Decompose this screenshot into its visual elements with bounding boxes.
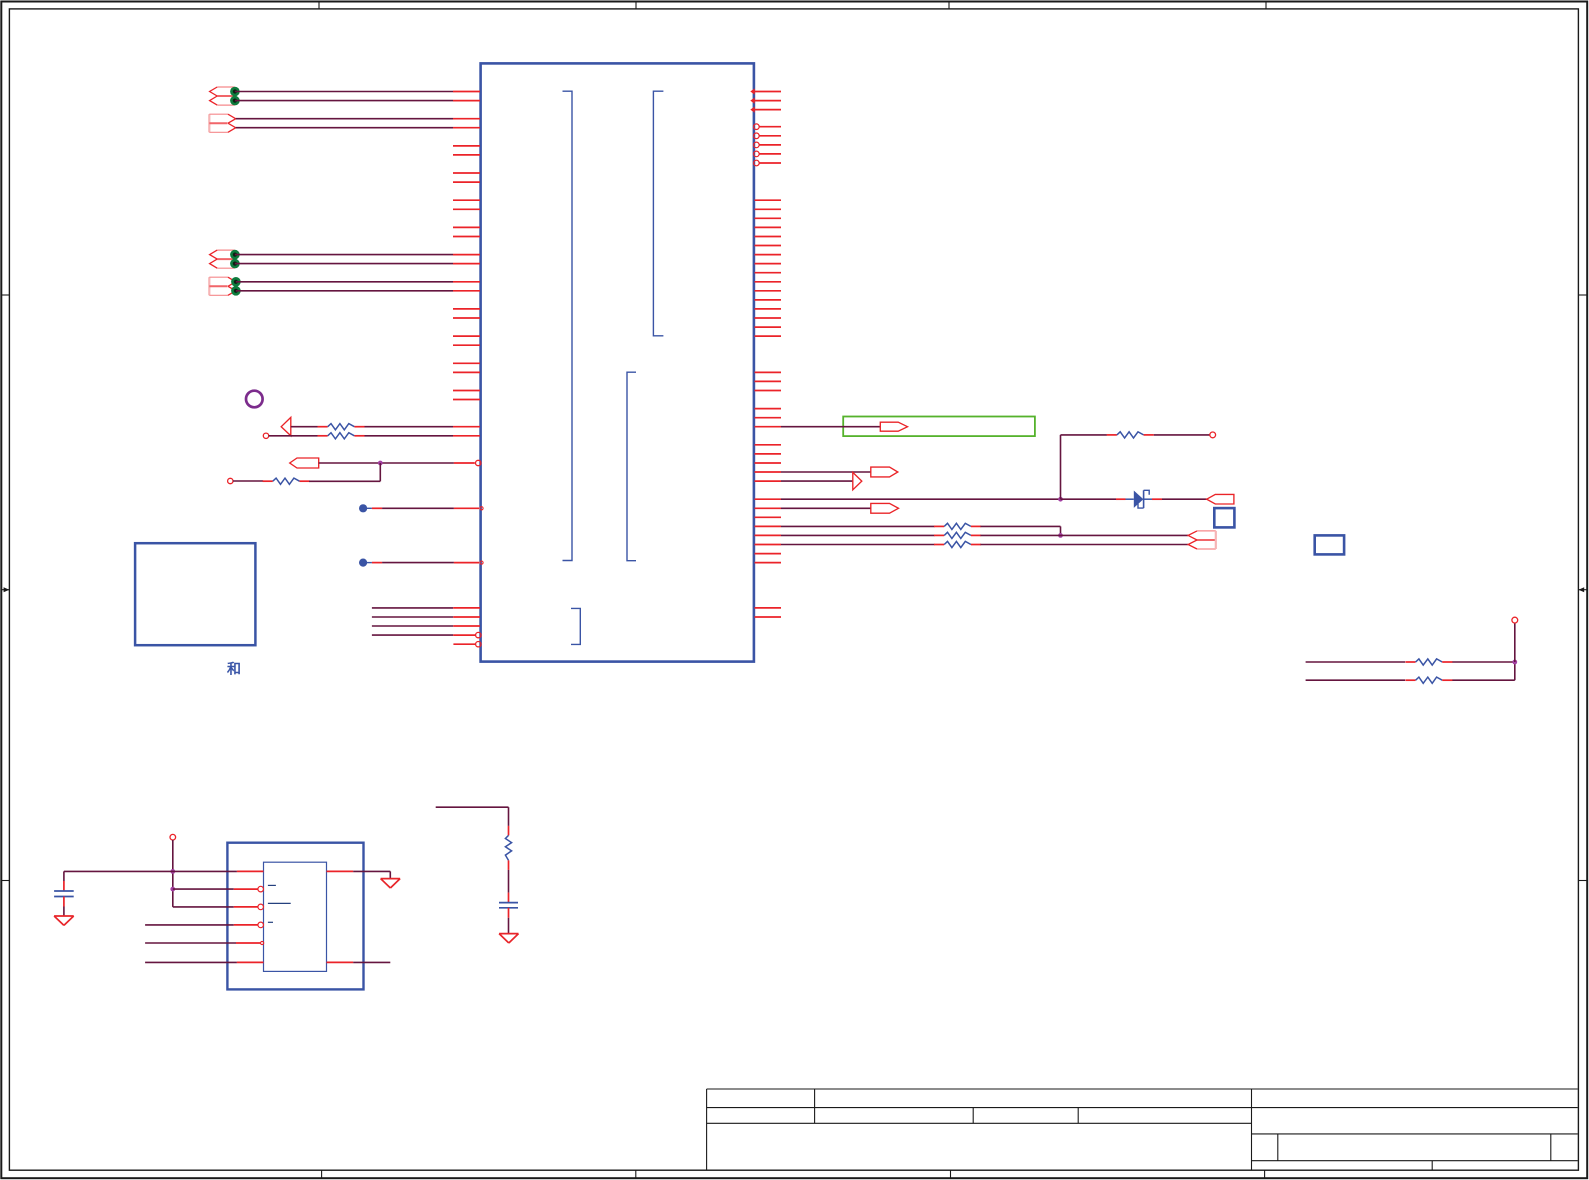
wire P4 pin1 to U1 xyxy=(236,281,480,283)
node TP1 xyxy=(263,433,268,438)
wire U2 pin 8 to ground xyxy=(327,871,391,878)
wire C2 to ground xyxy=(508,908,510,934)
wire to R9 xyxy=(1306,661,1406,663)
wire U1 to node A xyxy=(755,498,1061,500)
wire R6 to port P10 xyxy=(981,534,1189,536)
wire to U2 pin 4 xyxy=(145,922,263,928)
wire P3 pin2 to U1 xyxy=(235,263,480,265)
port arrow P5 xyxy=(290,458,319,468)
marker ring xyxy=(246,391,263,408)
test point TP4 xyxy=(359,559,372,567)
U2 symbol marks xyxy=(268,885,291,922)
wire D1 to port P8 xyxy=(1152,498,1207,500)
connector P4 (output arrows) xyxy=(209,277,235,295)
resistor R6 xyxy=(934,532,981,538)
U1 left pin stubs xyxy=(453,146,480,400)
wire U1 to R6 xyxy=(755,534,935,536)
wire xyxy=(379,463,381,481)
ground xyxy=(381,879,401,888)
wire R1 to U1 xyxy=(365,426,481,428)
wire P3 pin1 to U1 xyxy=(235,254,480,256)
wire xyxy=(291,426,318,428)
wire to U1 xyxy=(372,607,480,609)
wire to U2 pin 1 xyxy=(64,870,264,872)
highlight box xyxy=(843,417,1035,437)
resistor R2 xyxy=(318,433,365,439)
buffer triangle A2 xyxy=(853,472,862,489)
test point TP3 xyxy=(359,504,372,512)
wire U2 pin 7 xyxy=(327,961,391,963)
wire xyxy=(63,897,65,917)
capacitor C1 xyxy=(54,891,74,897)
marker square 1 xyxy=(1214,508,1234,527)
wire U1 to port P9 xyxy=(755,507,871,509)
port arrow P8 xyxy=(1207,494,1234,504)
U1 right pins with bubbles xyxy=(754,124,781,166)
wire U1 to R7 xyxy=(755,544,935,546)
wire TP4 to U1 xyxy=(372,561,483,564)
port arrow P7 xyxy=(871,467,898,477)
wire to U2 pin 6 xyxy=(145,961,263,963)
marker square 2 xyxy=(1315,535,1344,554)
connector P3 (input arrows) xyxy=(210,250,235,268)
P3 junction dots xyxy=(230,250,240,269)
wire R2 to U1 xyxy=(365,435,481,437)
port arrow P6 xyxy=(880,422,907,431)
wire U1 to port P6 xyxy=(755,426,881,428)
resistor R10 xyxy=(1405,677,1452,683)
wire to U1 xyxy=(372,616,480,618)
U1 internal bracket 2 xyxy=(653,91,663,336)
wire xyxy=(233,480,263,482)
resistor R3 xyxy=(263,478,310,484)
U1 pin stub (inverted) xyxy=(453,642,481,647)
wire R9 to node C xyxy=(1452,661,1514,663)
junction node C xyxy=(1512,660,1517,665)
junction node B xyxy=(1058,533,1063,538)
U1 right pin stubs xyxy=(755,200,782,617)
IC U2 xyxy=(264,862,327,971)
IC U1 body xyxy=(481,63,754,661)
wire P1 pin2 to U1 xyxy=(235,100,480,102)
junction xyxy=(378,461,383,466)
connector P2 (output arrows) xyxy=(209,114,235,132)
resistor R5 xyxy=(934,523,981,529)
wire U1 to port P7 xyxy=(755,471,871,473)
resistor R9 xyxy=(1405,659,1452,665)
resistor R7 xyxy=(934,541,981,547)
wire R5 to node B xyxy=(981,526,1061,535)
wire to U2 pin 5 xyxy=(145,941,264,944)
wire node A to R4 xyxy=(1061,435,1107,499)
resistor R4 xyxy=(1107,432,1154,438)
node TP7 xyxy=(170,834,176,840)
wire R10 to node C xyxy=(1452,662,1514,680)
wire TP3 to U1 xyxy=(372,507,483,510)
wire node A to D1 xyxy=(1061,498,1126,500)
wire xyxy=(269,435,318,437)
U1 internal bracket 4 xyxy=(571,608,580,644)
ground xyxy=(54,916,74,925)
U1 internal bracket 1 xyxy=(563,91,573,560)
wire U1 to buffer A2 xyxy=(755,480,853,482)
wire P2 pin1 to U1 xyxy=(236,118,480,120)
wire R4 to node TP5 xyxy=(1154,432,1216,438)
U1 internal bracket 3 xyxy=(627,372,636,561)
wire P5 to U1 xyxy=(319,462,475,464)
connector P1 (input arrows) xyxy=(210,87,235,105)
node TP2 xyxy=(228,478,233,483)
resistor R1 xyxy=(318,424,365,430)
port arrow P9 xyxy=(871,503,899,513)
wire R7 to port P10 xyxy=(981,544,1189,546)
wire P2 pin2 to U1 xyxy=(236,127,480,129)
connector P10 (dual arrows) xyxy=(1188,531,1216,549)
buffer triangle A1 xyxy=(281,417,291,435)
wire P1 pin1 to U1 xyxy=(235,91,480,93)
IC U2 outer box xyxy=(227,843,363,990)
junctions xyxy=(170,869,175,891)
diode D1 (schottky) xyxy=(1126,490,1153,508)
U1 right pins with arrows xyxy=(750,88,781,112)
wire R8 to C2 xyxy=(508,870,510,903)
ground xyxy=(499,934,518,943)
capacitor C2 xyxy=(499,903,518,908)
label text xyxy=(227,662,241,677)
wire P4 pin2 to U1 xyxy=(236,290,480,292)
wire to U1 xyxy=(372,625,480,627)
wire to R8 xyxy=(436,807,509,826)
svg-text:和: 和 xyxy=(227,662,241,677)
junction node A xyxy=(1058,497,1063,502)
annotation box xyxy=(135,543,255,645)
wire to R10 xyxy=(1306,679,1406,681)
P4 junction dots xyxy=(231,277,241,296)
wire xyxy=(63,871,65,891)
wire U1 to R5 xyxy=(755,525,935,527)
wire to U1 (inverted pin) xyxy=(372,632,481,637)
wire R3 to junction xyxy=(309,480,380,482)
wire to U2 pin 3 xyxy=(173,904,264,910)
wire node C to TP6 xyxy=(1512,617,1518,662)
wire to U2 pin 2 xyxy=(173,886,264,892)
U1 pin bubble xyxy=(476,460,481,465)
resistor R8 xyxy=(505,826,511,870)
P1 junction dots xyxy=(230,87,240,106)
wire xyxy=(172,840,174,907)
